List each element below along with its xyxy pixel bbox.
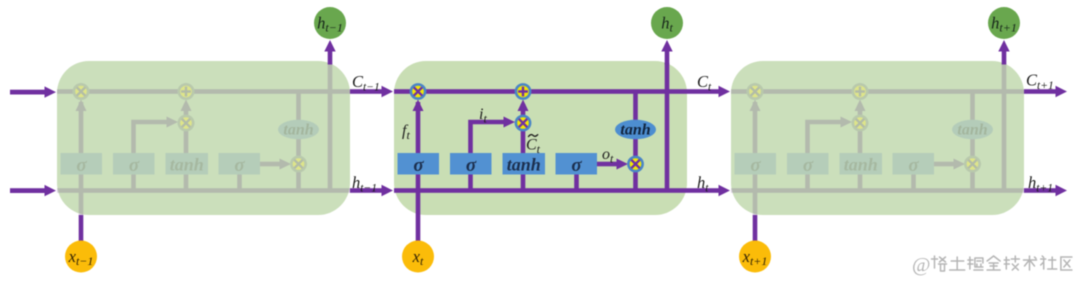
cell t+1 background	[731, 61, 1024, 215]
svg-text:Ct−1: Ct−1	[352, 72, 380, 94]
wire input arrow C left	[10, 86, 56, 97]
node h t circle	[651, 7, 683, 39]
node x t circle	[402, 241, 434, 273]
node h t+1 circle	[988, 7, 1020, 39]
cell t+1 faded interior	[731, 63, 1024, 215]
cell t background	[394, 61, 687, 215]
wire h t arrow between cells	[687, 185, 730, 196]
cell t+1 faded gates overlay	[748, 84, 980, 171]
svg-text:Ct+1: Ct+1	[1026, 71, 1054, 93]
cell t-1 faded gates overlay	[74, 84, 306, 171]
wire h t+1 output arrow	[1024, 185, 1067, 196]
wire C t+1 output arrow	[1024, 86, 1067, 97]
wire h t up arrow to circle	[661, 40, 672, 65]
svg-text:Ct: Ct	[697, 72, 712, 94]
node h t-1 circle	[314, 7, 346, 39]
cell t-1 faded interior	[57, 63, 350, 215]
wire x t+1 stem	[753, 215, 758, 241]
watermark	[912, 254, 1072, 276]
node x t-1 circle	[65, 241, 97, 273]
wire x t-1 stem	[79, 215, 84, 241]
wire x t stem	[416, 215, 421, 241]
svg-text:ht−1: ht−1	[352, 173, 377, 195]
svg-text:@: @	[912, 254, 930, 276]
wire h t-1 arrow between cells	[350, 185, 393, 196]
cell t-1 background	[57, 61, 350, 215]
svg-text:ht: ht	[697, 173, 709, 195]
node x t+1 circle	[739, 241, 771, 273]
cell t interior	[394, 63, 687, 215]
wire h t-1 up arrow to circle	[324, 40, 335, 65]
wire h t+1 up arrow to circle	[998, 40, 1009, 65]
svg-text:ht+1: ht+1	[1028, 173, 1053, 195]
wire input arrow h left	[10, 185, 56, 196]
wire C t arrow between cells	[687, 86, 730, 97]
wire C t-1 arrow between cells	[350, 86, 393, 97]
